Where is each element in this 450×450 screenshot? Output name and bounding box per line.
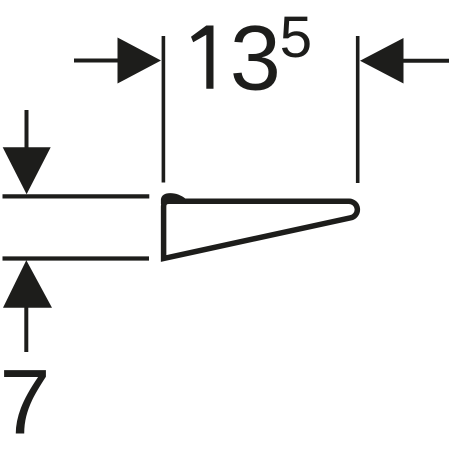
dimension 13.5: left extension line: [162, 36, 166, 183]
dimension 7: bottom extension line: [3, 256, 150, 260]
svg-text:3: 3: [230, 8, 281, 110]
dimension 7: up arrow: [3, 260, 52, 308]
dimension 7: down arrow: [3, 147, 51, 194]
dimension 13.5 top: left leader line: [74, 59, 120, 63]
dimension 7: top leader line: [25, 110, 29, 148]
dimension 13.5: right extension line: [356, 36, 360, 183]
dimension label 13: [191, 26, 214, 89]
dimension 13.5 top: right leader line: [404, 59, 450, 63]
dimension 13.5 top: right arrow: [360, 38, 404, 84]
svg-text:5: 5: [280, 5, 313, 70]
dimension 13.5 top: left arrow: [118, 38, 162, 84]
profile top-left bead bump: [161, 193, 186, 204]
dimension 7: top extension line: [3, 194, 150, 198]
svg-text:7: 7: [0, 351, 51, 450]
dimension 7: bottom leader line: [24, 308, 28, 353]
profile outline (wedge cross-section): [164, 201, 358, 258]
